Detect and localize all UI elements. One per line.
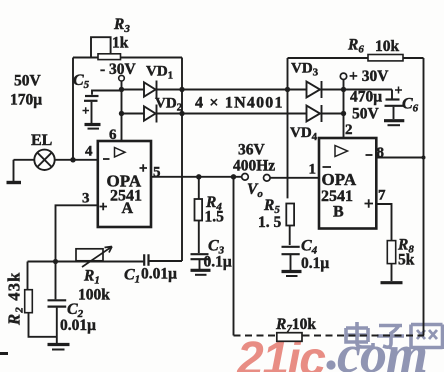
wire R3 jumper staple — [91, 37, 111, 57]
resistor R3 — [98, 54, 121, 60]
svg-text:VD1: VD1 — [146, 64, 173, 82]
node R1/R2/C2 — [53, 259, 58, 264]
node VD2 anode — [119, 111, 124, 116]
svg-text:4: 4 — [85, 144, 93, 160]
terminal Vo right — [264, 175, 271, 182]
node long vertical joins VD2 row — [179, 111, 184, 116]
stray mark bottom-left — [0, 352, 8, 355]
svg-text:50V: 50V — [14, 73, 42, 90]
svg-text:8: 8 — [377, 145, 385, 161]
svg-text:R1: R1 — [83, 268, 100, 287]
svg-text:C6: C6 — [402, 96, 419, 115]
diode VD4 — [307, 105, 322, 122]
diode VD3 — [307, 81, 322, 98]
op-amp A minus sign — [103, 158, 110, 160]
op-amp B overline minus — [323, 166, 332, 168]
op-amp A plus sign pin5 — [140, 164, 148, 171]
ground EL — [7, 181, 22, 184]
node VD3 anode — [285, 87, 290, 92]
svg-text:2: 2 — [345, 122, 353, 138]
ground C5 — [85, 125, 101, 129]
svg-text:VD2: VD2 — [155, 96, 183, 114]
wire right box top edge — [288, 57, 424, 59]
wire right box left edge down to R5 — [287, 58, 289, 198]
svg-text:7: 7 — [378, 188, 386, 204]
svg-text:VD4: VD4 — [290, 125, 318, 143]
wire VD2 row — [122, 113, 344, 115]
terminal -30V — [119, 75, 125, 81]
ground R8 — [381, 281, 403, 284]
potentiometer R1 — [76, 247, 112, 268]
watermark dian zi wang — [346, 322, 443, 349]
wire right edge vertical — [423, 58, 425, 336]
resistor R5 — [286, 204, 294, 246]
svg-text:170μ: 170μ — [10, 92, 42, 109]
resistor R8 — [387, 241, 395, 281]
svg-text:100k: 100k — [78, 287, 110, 304]
ground C3 — [191, 270, 211, 275]
wire top-left box top edge — [73, 57, 182, 59]
svg-text:R710k: R710k — [275, 316, 316, 335]
wire R2 bottom — [29, 313, 57, 337]
svg-text:OPA: OPA — [322, 170, 357, 189]
diode VD1 — [144, 81, 157, 99]
svg-text:1k: 1k — [112, 35, 129, 52]
op-amp U1 OPA2541A box — [98, 141, 151, 227]
node VD1 anode — [119, 87, 124, 92]
svg-text:0.1μ: 0.1μ — [301, 255, 329, 272]
svg-text:5: 5 — [153, 165, 161, 181]
wire pin8 — [376, 157, 423, 159]
svg-text:C5: C5 — [73, 72, 90, 91]
svg-text:0.01μ: 0.01μ — [141, 266, 177, 283]
svg-text:R2 43k: R2 43k — [5, 271, 26, 326]
resistor R7 — [277, 333, 302, 342]
resistor R4 — [195, 177, 203, 253]
svg-text:5k: 5k — [398, 252, 415, 269]
wire pin5 output — [151, 176, 242, 178]
svg-text:1.5: 1.5 — [205, 209, 225, 226]
svg-text:B: B — [333, 204, 344, 221]
svg-text:6: 6 — [109, 127, 117, 143]
wire VD1 row — [122, 89, 393, 91]
ground C2 — [48, 345, 70, 350]
node R4 tap — [196, 174, 201, 179]
svg-text:+ 30V: + 30V — [349, 68, 389, 85]
capacitor C1 — [144, 254, 182, 265]
wire pin1 — [270, 177, 319, 179]
node Vo feedback tap — [231, 174, 236, 179]
capacitor C3 — [191, 254, 209, 269]
op-amp B minus pin8 — [366, 154, 373, 156]
svg-text:VD3: VD3 — [291, 61, 319, 79]
op-amp B plus pin7 — [365, 199, 374, 208]
capacitor C4 — [282, 247, 300, 270]
wire pin3 — [56, 205, 98, 261]
svg-text:R3: R3 — [113, 16, 130, 35]
wire +30V vertical to pin2 — [343, 80, 345, 139]
wire right edge of left box (long vertical to C1) — [181, 58, 183, 262]
svg-text:A: A — [122, 200, 134, 217]
svg-text:1: 1 — [309, 162, 317, 178]
lamp EL — [34, 150, 54, 170]
wire -30V vertical to pin6 — [121, 81, 123, 141]
svg-text:4 × 1N4001: 4 × 1N4001 — [195, 95, 284, 112]
svg-text:EL: EL — [31, 132, 52, 149]
wire pin7 to R8 — [376, 204, 391, 241]
svg-text:470μ: 470μ — [350, 89, 382, 106]
ground C4 — [282, 272, 302, 277]
svg-text:10k: 10k — [375, 38, 400, 55]
svg-text:36V: 36V — [238, 142, 266, 159]
ground C6 — [384, 121, 404, 126]
svg-text:- 30V: - 30V — [100, 61, 137, 78]
capacitor C2 — [48, 262, 67, 344]
wire left box edge — [72, 58, 74, 160]
svg-text:1. 5: 1. 5 — [258, 214, 282, 231]
op-amp B triangle — [335, 146, 348, 157]
svg-text:0.01μ: 0.01μ — [60, 317, 96, 334]
svg-text:50V: 50V — [352, 106, 380, 123]
svg-text:C4: C4 — [301, 238, 318, 257]
svg-text:C1: C1 — [124, 267, 140, 286]
node pin8 right edge — [422, 156, 426, 160]
node top wire joins VD1 row — [179, 87, 184, 92]
wire R2 drop — [27, 262, 29, 290]
node VD3 cathode — [341, 87, 346, 92]
node EL wire / box edge — [70, 157, 75, 162]
resistor R2 — [25, 290, 33, 313]
diode VD2 — [144, 105, 157, 123]
svg-text:Vo: Vo — [247, 181, 263, 200]
svg-text:400Hz: 400Hz — [233, 158, 275, 175]
wire EL to pin4 — [55, 159, 98, 161]
op-amp A triangle — [115, 148, 126, 158]
wire Vo feedback drop — [233, 177, 235, 336]
terminal Vo left — [242, 174, 249, 181]
op-amp A plus sign pin3 — [100, 203, 108, 210]
svg-text:2541: 2541 — [321, 188, 353, 205]
wire EL left to ground — [14, 160, 35, 181]
op-amp U2 OPA2541B box — [319, 138, 376, 229]
node VD4 cathode — [341, 111, 346, 116]
capacitor C5 — [83, 91, 122, 124]
wire bottom feedback (dashed) — [234, 335, 425, 337]
capacitor C6 — [385, 87, 405, 120]
resistor R6 — [368, 55, 403, 61]
terminal +30V — [340, 73, 346, 79]
wire R1 row — [28, 261, 144, 263]
svg-text:0.1μ: 0.1μ — [204, 254, 232, 271]
svg-text:3: 3 — [82, 191, 90, 207]
watermark 21ic — [236, 324, 427, 372]
svg-text:R6: R6 — [347, 37, 364, 56]
